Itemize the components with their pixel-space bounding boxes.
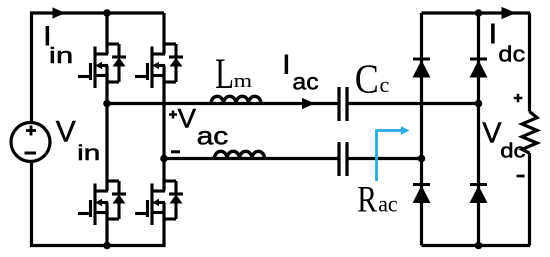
svg-text:V: V xyxy=(178,103,197,134)
capacitor bottom plate right xyxy=(345,142,348,176)
plus sign source xyxy=(26,126,36,136)
label Lm xyxy=(215,51,252,98)
wire left vertical bottom xyxy=(30,162,33,246)
diode D3 bridge bottom-left xyxy=(413,185,431,204)
svg-text:I: I xyxy=(283,50,291,80)
wire top AC line left xyxy=(107,102,338,105)
svg-text:V: V xyxy=(56,116,76,149)
wire left leg lower xyxy=(105,203,108,246)
node junction dot right leg mid xyxy=(160,155,168,163)
svg-text:ac: ac xyxy=(197,122,229,150)
inductor Lm top winding xyxy=(211,96,261,103)
svg-text:ac: ac xyxy=(292,69,318,95)
capacitor Cc top plate left xyxy=(337,87,340,121)
svg-text:m: m xyxy=(234,70,253,91)
diode D4 bridge bottom-right xyxy=(470,185,488,204)
label Rac xyxy=(357,180,397,221)
label Vac xyxy=(178,103,229,150)
capacitor bottom plate left xyxy=(337,142,340,176)
capacitor Cc top plate right xyxy=(345,87,348,121)
node junction dot bridge left leg bottom line xyxy=(418,155,426,163)
svg-text:L: L xyxy=(215,51,234,98)
svg-text:c: c xyxy=(380,72,390,97)
plus sign Vdc xyxy=(514,94,523,103)
node junction dot bridge top xyxy=(475,9,483,17)
wire right leg lower xyxy=(162,203,165,246)
voltage source Vin xyxy=(11,123,50,162)
transistor Q4 bottom-right MOSFET xyxy=(135,181,183,225)
arrow Iin current xyxy=(53,7,66,18)
wire top AC line right of capacitor xyxy=(349,102,479,105)
resistor load zigzag xyxy=(522,112,537,154)
label Idc xyxy=(489,18,525,67)
wire bottom rail H-bridge xyxy=(30,244,166,247)
label Cc xyxy=(355,58,390,103)
diode D2 bridge top-right xyxy=(470,59,488,78)
wire left leg middle xyxy=(105,66,108,192)
svg-text:dc: dc xyxy=(500,139,525,162)
arrow Iac current xyxy=(302,98,315,109)
node junction dot bridge right leg top line xyxy=(475,100,483,108)
wire left vertical top xyxy=(30,12,33,123)
svg-text:I: I xyxy=(489,18,497,49)
wire left leg upper xyxy=(105,13,108,54)
inductor bottom winding xyxy=(215,151,265,158)
wire bottom AC line left xyxy=(164,157,338,160)
diode bridge right leg xyxy=(477,13,480,246)
svg-text:in: in xyxy=(49,43,73,67)
transistor Q3 bottom-left MOSFET xyxy=(78,181,126,225)
node junction dot bottom rail left leg xyxy=(103,242,111,250)
wire bottom AC line right of capacitor xyxy=(349,157,422,160)
wire right leg middle xyxy=(162,66,165,192)
label Iac xyxy=(283,50,319,95)
transistor Q2 top-right MOSFET xyxy=(135,44,183,88)
wire bridge bottom rail xyxy=(422,244,531,247)
svg-text:V: V xyxy=(482,118,502,150)
wire top rail H-bridge xyxy=(30,11,164,14)
node junction dot left leg mid xyxy=(103,100,111,108)
label Iin xyxy=(44,21,74,68)
svg-text:in: in xyxy=(77,142,100,165)
minus sign Vac xyxy=(171,150,180,153)
arrow Idc current xyxy=(502,7,517,19)
transistor Q1 top-left MOSFET xyxy=(78,44,126,88)
minus sign source xyxy=(25,152,37,155)
plus sign Vac xyxy=(169,111,177,119)
wire load branch upper xyxy=(528,13,531,112)
arrow Rac equivalent resistance pointer xyxy=(377,131,402,182)
label Vdc xyxy=(482,118,525,162)
svg-text:dc: dc xyxy=(498,43,525,67)
node junction dot bridge bottom rail xyxy=(475,242,483,250)
minus sign Vdc xyxy=(517,175,525,178)
diode D1 bridge top-left xyxy=(413,59,431,78)
svg-text:C: C xyxy=(355,58,379,103)
wire right leg upper xyxy=(162,13,165,54)
node junction dot top rail left leg xyxy=(103,9,111,17)
svg-text:R: R xyxy=(357,180,377,221)
wire bridge top rail xyxy=(422,11,531,14)
wire load branch lower xyxy=(528,153,531,246)
label Vin xyxy=(56,116,100,165)
svg-text:ac: ac xyxy=(378,191,397,217)
diode bridge left leg xyxy=(420,13,423,246)
